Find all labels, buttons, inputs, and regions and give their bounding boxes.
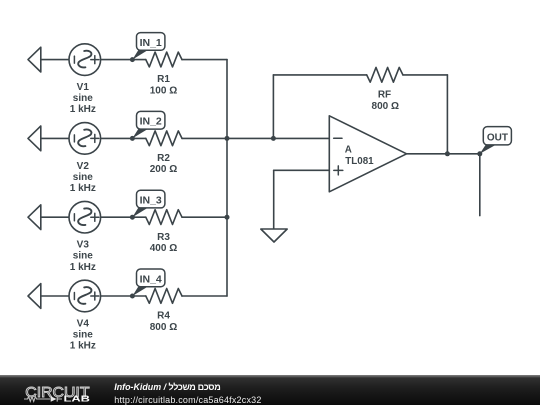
wire [101, 295, 146, 297]
svg-text:400 Ω: 400 Ω [150, 243, 177, 254]
svg-text:V3: V3 [77, 240, 90, 251]
wire [101, 137, 146, 139]
svg-text:LAB: LAB [64, 393, 91, 403]
wire (feedback right vertical) [446, 75, 448, 154]
ground [261, 229, 287, 242]
node flag IN_2 [130, 111, 165, 141]
node flag IN_1 [130, 33, 165, 63]
svg-text:V2: V2 [77, 161, 90, 172]
wire (to ground) [273, 170, 275, 229]
label V4 sine 1 kHz [70, 318, 96, 351]
resistor RF [367, 67, 403, 82]
ground flag (V4 left terminal) [28, 284, 41, 309]
wire [101, 216, 146, 218]
junction (feedback tap) [271, 136, 276, 141]
wire (output stub down) [479, 154, 481, 216]
svg-text:V1: V1 [77, 82, 90, 93]
wire [182, 295, 227, 297]
wire [41, 216, 69, 218]
wire [182, 59, 227, 61]
ground flag (V1 left terminal) [28, 47, 41, 72]
svg-text:sine: sine [73, 330, 93, 341]
label R2 200 Ω [150, 153, 177, 175]
svg-text:R4: R4 [157, 311, 170, 322]
label R4 800 Ω [150, 311, 177, 333]
svg-text:Info-Kidum / מסכם משכלל: Info-Kidum / מסכם משכלל [114, 382, 220, 392]
svg-text:V4: V4 [77, 318, 90, 329]
junction (bus / row3) [225, 215, 230, 220]
svg-text:RF: RF [378, 90, 391, 101]
svg-text:sine: sine [73, 172, 93, 183]
svg-text:1 kHz: 1 kHz [70, 262, 96, 273]
wire (feedback top right) [403, 74, 448, 76]
node flag OUT [477, 127, 511, 157]
ground flag (V2 left terminal) [28, 126, 41, 151]
svg-text:IN_2: IN_2 [140, 116, 162, 128]
svg-text:1 kHz: 1 kHz [70, 104, 96, 115]
svg-text:A: A [345, 145, 352, 156]
node flag IN_4 [130, 269, 165, 299]
resistor R3 [146, 210, 182, 225]
wire [182, 216, 227, 218]
resistor R4 [146, 289, 182, 304]
voltage source V3 [69, 201, 101, 233]
svg-text:800 Ω: 800 Ω [150, 322, 177, 333]
node flag IN_3 [130, 190, 165, 220]
svg-text:1 kHz: 1 kHz [70, 183, 96, 194]
svg-text:IN_3: IN_3 [140, 195, 162, 207]
label RF 800 Ω [372, 90, 399, 112]
voltage source V1 [69, 44, 101, 76]
op-amp A TL081 [329, 116, 406, 192]
wire (op-amp output) [407, 153, 480, 155]
wire [101, 59, 146, 61]
svg-text:OUT: OUT [487, 132, 508, 143]
voltage source V2 [69, 123, 101, 155]
junction (bus / row2) [225, 136, 230, 141]
svg-text:IN_4: IN_4 [140, 273, 162, 285]
ground flag (V3 left terminal) [28, 205, 41, 230]
svg-text:IN_1: IN_1 [140, 37, 162, 49]
junction (output / feedback) [445, 151, 450, 156]
svg-text:sine: sine [73, 251, 93, 262]
svg-text:100 Ω: 100 Ω [150, 85, 177, 96]
svg-text:R3: R3 [157, 232, 170, 243]
summing bus vertical wire [226, 60, 228, 296]
wire (feedback top left) [273, 74, 366, 76]
svg-text:800 Ω: 800 Ω [372, 101, 399, 112]
label V2 sine 1 kHz [70, 161, 96, 194]
wire (feedback left vertical) [272, 75, 274, 138]
svg-text:1 kHz: 1 kHz [70, 341, 96, 352]
svg-text:http://circuitlab.com/ca5a64fx: http://circuitlab.com/ca5a64fx2cx32 [114, 395, 261, 405]
label R1 100 Ω [150, 74, 177, 96]
resistor R2 [146, 131, 182, 146]
label R3 400 Ω [150, 232, 177, 254]
wire (non-inverting input) [274, 169, 330, 171]
svg-text:R2: R2 [157, 153, 170, 164]
wire [41, 59, 69, 61]
footer bar [0, 375, 540, 405]
wire [182, 137, 227, 139]
svg-text:R1: R1 [157, 74, 170, 85]
svg-text:TL081: TL081 [345, 156, 374, 167]
resistor R1 [146, 52, 182, 67]
label V3 sine 1 kHz [70, 240, 96, 273]
wire (bus to op-amp inverting input) [227, 137, 329, 139]
logo resistor-diode squiggle [24, 396, 62, 401]
wire [41, 295, 69, 297]
label V1 sine 1 kHz [70, 82, 96, 115]
svg-text:200 Ω: 200 Ω [150, 164, 177, 175]
wire [41, 137, 69, 139]
svg-text:sine: sine [73, 93, 93, 104]
voltage source V4 [69, 280, 101, 312]
